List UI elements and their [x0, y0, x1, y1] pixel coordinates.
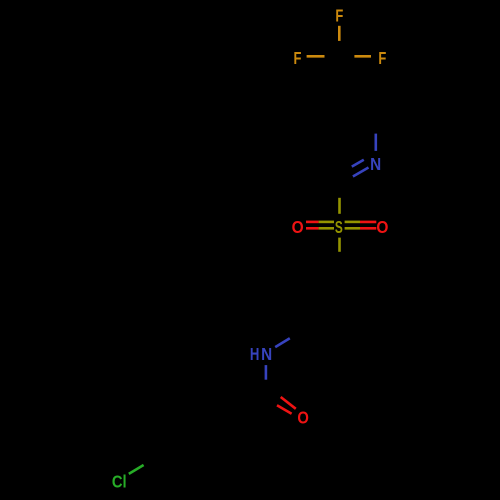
bond C2-S (S half) [338, 198, 341, 214]
bond N1-C6 pyridine (N half) [374, 134, 377, 151]
svg-text:O: O [376, 217, 388, 237]
bond Cring-N amide (N half) [275, 338, 290, 347]
svg-text:S: S [335, 218, 343, 238]
bond S=O right upper line (O half) [360, 221, 376, 224]
bond S=O right upper line (S half) [345, 221, 360, 224]
bond S=O right lower line (O half) [360, 227, 376, 230]
bond S=O right lower line (S half) [345, 227, 360, 230]
svg-text:F: F [293, 49, 301, 69]
bond C=O carbonyl upper line (O half) [281, 397, 296, 409]
bond S=O left upper line (S half) [319, 221, 334, 224]
bond S=O left upper line (O half) [306, 221, 319, 224]
svg-text:N: N [261, 344, 272, 364]
bond S-C benzene (S half) [338, 238, 341, 252]
svg-text:O: O [292, 217, 304, 237]
bond C-F top (F half) [338, 26, 341, 41]
svg-text:H: H [250, 345, 259, 364]
svg-text:F: F [335, 7, 343, 27]
bond C-F right (F half) [354, 55, 371, 58]
bond C=O carbonyl lower line (O half) [277, 405, 292, 413]
bond S=O left lower line (O half) [306, 227, 319, 230]
bond C-F left (F half) [307, 55, 325, 58]
svg-text:F: F [378, 49, 386, 69]
bond N amide-C carbonyl (N half) [265, 365, 268, 380]
bond S=O left lower line (S half) [319, 227, 334, 230]
bond N1=C2 pyridine outer line (N half) [353, 168, 369, 177]
svg-text:O: O [297, 408, 309, 428]
bond N1=C2 pyridine inner line (N half) [352, 160, 364, 167]
bond C-Cl (Cl half) [129, 465, 144, 474]
svg-text:N: N [370, 154, 381, 174]
svg-text:Cl: Cl [112, 472, 127, 492]
